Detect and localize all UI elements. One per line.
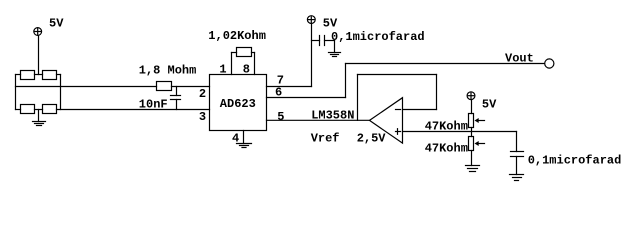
wire trimmer2 to ground [471, 151, 473, 166]
svg-text:AD623: AD623 [220, 97, 256, 111]
bridge resistor top-right [43, 71, 57, 80]
decoupling capacitor 0,1microfarad (top) [312, 36, 335, 46]
bridge resistor bottom-left [21, 105, 35, 114]
filter capacitor 0,1microfarad (right) [511, 152, 524, 175]
wire non-inverting input to divider junction [403, 131, 517, 133]
pin 6 wire [267, 97, 346, 99]
svg-text:2: 2 [199, 87, 206, 101]
capacitor 10nF [171, 87, 181, 110]
svg-text:47Kohm: 47Kohm [425, 142, 468, 156]
bridge bottom edge wire segments [16, 109, 43, 111]
gain resistor 1,02Kohm [232, 48, 255, 57]
svg-text:5: 5 [277, 110, 284, 124]
wire pin7 up to 5V [311, 24, 313, 86]
resistor 1,8 Mohm [157, 82, 172, 91]
pin 4 stub [243, 131, 245, 144]
trimmer arrow (upper) [475, 118, 485, 123]
svg-text:1: 1 [219, 63, 226, 77]
trimmer resistor 47Kohm (upper) [469, 114, 474, 128]
pin 1 stub [231, 53, 233, 75]
svg-text:Vref: Vref [311, 132, 340, 146]
svg-text:10nF: 10nF [139, 98, 168, 112]
pin 8 stub [254, 53, 256, 75]
ground below divider [466, 166, 480, 172]
feedback wire from output [358, 75, 437, 121]
wire inverting input [403, 109, 437, 111]
ground below bridge [33, 110, 46, 126]
wire bridge mid node to resistor [16, 86, 157, 88]
svg-text:5V: 5V [323, 17, 338, 31]
pin 5 wire to op-amp output [267, 119, 370, 121]
wire Vout [346, 63, 545, 65]
power 5V supply symbol (right) [467, 92, 475, 100]
ground below filter capacitor [510, 175, 524, 181]
trimmer resistor 47Kohm (lower) [469, 137, 474, 151]
wire trimmer1 to junction [471, 128, 473, 137]
svg-text:6: 6 [275, 86, 282, 100]
bridge top edge wire segments [16, 74, 61, 76]
svg-text:5V: 5V [482, 98, 497, 112]
svg-text:3: 3 [199, 110, 206, 124]
svg-text:1,02Kohm: 1,02Kohm [208, 29, 266, 43]
trimmer arrow (lower) [475, 141, 485, 146]
instrumentation amplifier AD623 body [210, 75, 267, 131]
ground for decoupling capacitor (top) [329, 41, 341, 57]
svg-text:0,1microfarad: 0,1microfarad [331, 30, 425, 44]
sensor bridge outline right edge [60, 75, 62, 110]
op-amp minus symbol [396, 109, 401, 111]
svg-text:LM358N: LM358N [311, 109, 354, 123]
bridge resistor bottom-right [43, 105, 57, 114]
svg-text:5V: 5V [49, 17, 64, 31]
sensor bridge outline left edge [15, 75, 17, 110]
wire resistor to pin 2 [172, 86, 210, 88]
op-amp plus symbol [396, 129, 401, 135]
wire 5V to trimmer 1 [471, 100, 473, 113]
svg-text:1,8 Mohm: 1,8 Mohm [139, 64, 197, 78]
svg-text:8: 8 [243, 63, 250, 77]
wire junction to filter capacitor [516, 132, 518, 152]
svg-text:2,5V: 2,5V [357, 132, 387, 146]
power 5V supply symbol (top middle) [307, 16, 315, 24]
svg-text:47Kohm: 47Kohm [425, 120, 468, 134]
wire bridge bottom node to pin 3 [57, 109, 210, 111]
terminal Vout [545, 59, 554, 68]
power 5V supply symbol (left) [34, 28, 42, 36]
svg-text:Vout: Vout [505, 52, 534, 66]
wire pin6 up to Vout line [345, 64, 347, 98]
pin 7 wire [267, 86, 312, 88]
bridge resistor top-left [21, 71, 35, 80]
svg-text:4: 4 [232, 132, 239, 146]
ground below AD623 [237, 144, 252, 148]
wire 5V to bridge top [38, 36, 40, 74]
op-amp LM358N triangle [370, 98, 403, 143]
svg-text:0,1microfarad: 0,1microfarad [528, 154, 622, 168]
